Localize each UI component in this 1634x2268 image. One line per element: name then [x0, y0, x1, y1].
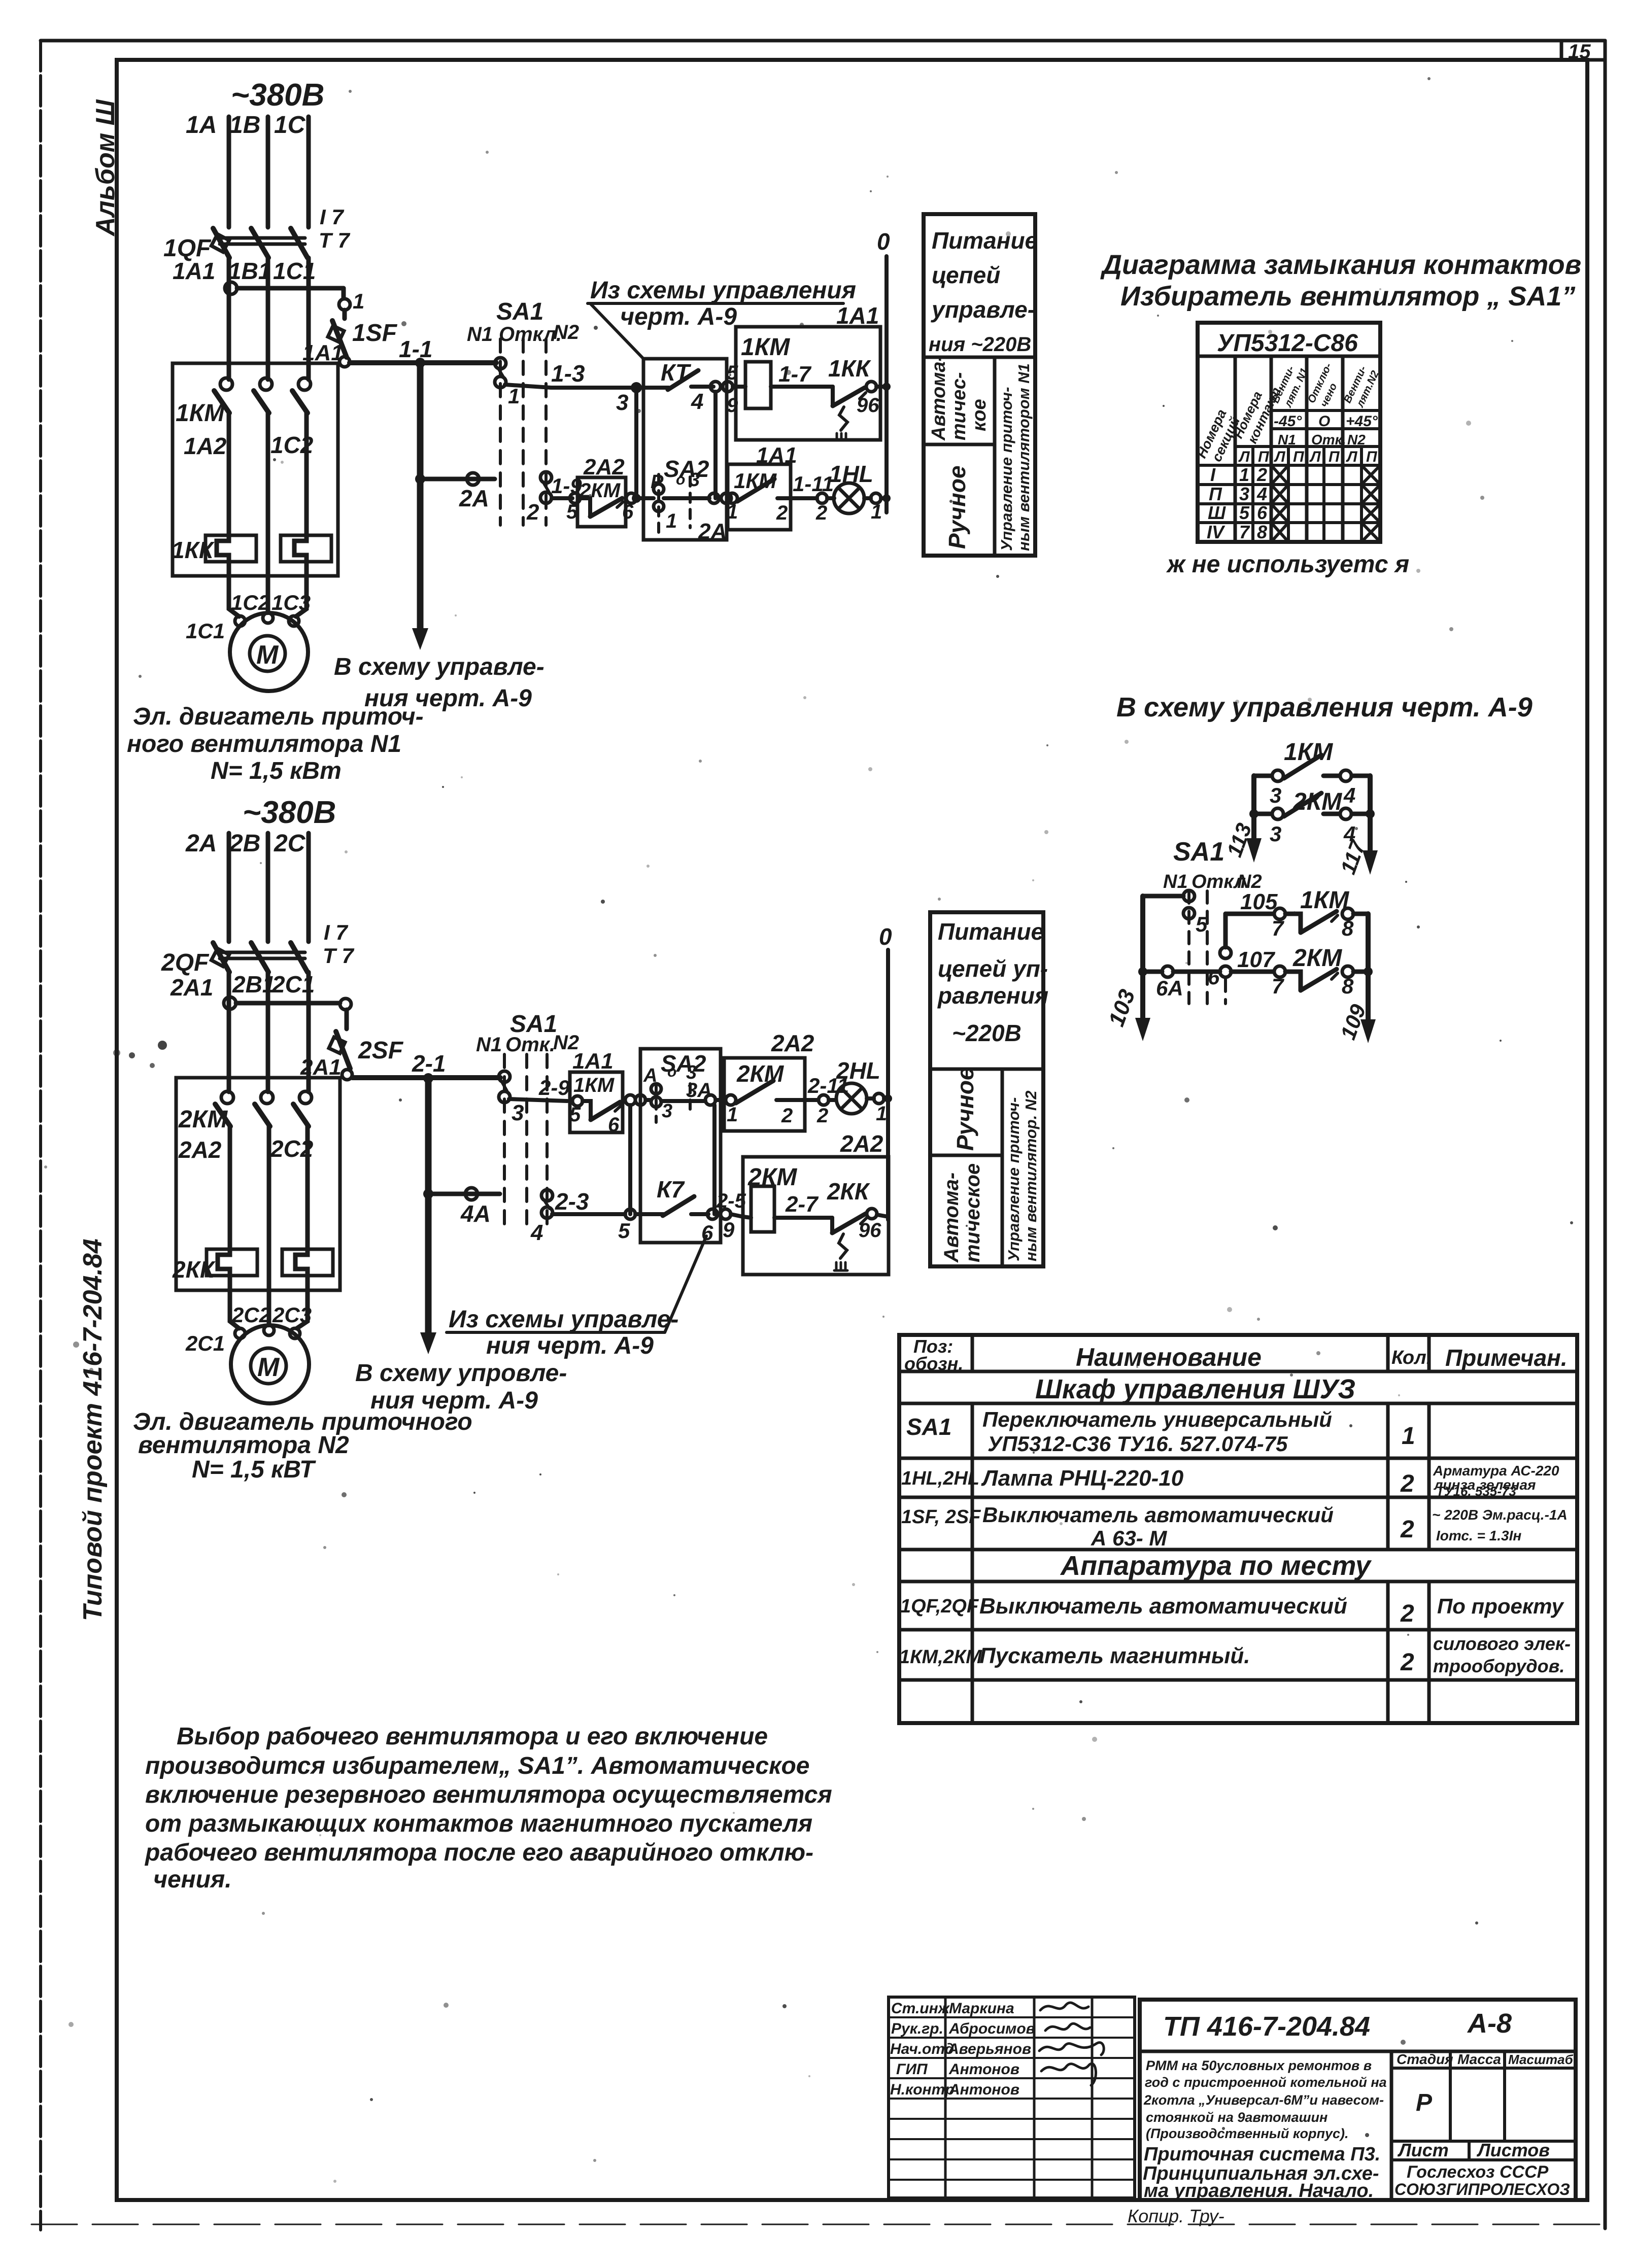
SA2 box outline: [640, 1049, 721, 1243]
svg-text:ж не используетс я: ж не используетс я: [1166, 551, 1409, 578]
terminals at 2A node: [709, 493, 731, 503]
svg-text:8: 8: [1257, 522, 1267, 542]
svg-text:Выключатель автоматический: Выключатель автоматический: [979, 1594, 1347, 1619]
svg-text:Ручное: Ручное: [944, 465, 970, 549]
svg-text:2SF: 2SF: [358, 1037, 404, 1064]
svg-text:1КМ: 1КМ: [1300, 887, 1349, 914]
contact 2KM: [1249, 793, 1375, 819]
wire 4A branch: [433, 1188, 500, 1200]
cell Автоматическое (rotated, circuit 2): [940, 1163, 984, 1263]
svg-text:1А: 1А: [186, 112, 217, 139]
svg-text:Листов: Листов: [1476, 2140, 1550, 2160]
svg-text:ГИП: ГИП: [896, 2061, 928, 2078]
svg-text:3: 3: [512, 1101, 524, 1125]
svg-text:П: П: [1366, 449, 1378, 465]
svg-text:Т 7: Т 7: [323, 944, 354, 968]
svg-text:3: 3: [1270, 822, 1281, 846]
node on phase A / branch to control (circuit 2): [224, 997, 351, 1010]
svg-text:103: 103: [1104, 986, 1140, 1030]
row I: [1210, 464, 1380, 485]
main title block frame: [1140, 2000, 1576, 2200]
svg-text:2КК: 2КК: [172, 1256, 216, 1283]
svg-text:2КМ: 2КМ: [178, 1106, 228, 1133]
motor leads: [229, 576, 307, 616]
svg-text:от размыкающих контактов ма: от размыкающих контактов магнитного пуск…: [145, 1810, 812, 1837]
svg-text:4: 4: [691, 389, 703, 414]
terminal: [819, 1095, 829, 1105]
cell Автоматическое (rotated): [928, 355, 990, 441]
thermal relay 1KK heater (phase A): [206, 535, 256, 576]
svg-text:N= 1,5 кВт: N= 1,5 кВт: [211, 758, 342, 784]
svg-text:4А: 4А: [460, 1200, 491, 1227]
svg-text:рабочего вентилятора после: рабочего вентилятора после его аварийног…: [144, 1839, 813, 1866]
wire 2-9: [509, 1099, 567, 1101]
box 2A2 (coil section): [743, 1157, 889, 1275]
svg-text:1: 1: [1402, 1423, 1415, 1450]
svg-text:1КМ,2КМ: 1КМ,2КМ: [899, 1646, 982, 1668]
rung 105 contact 1KM: [1225, 908, 1368, 933]
table SA1 outline: [1198, 323, 1380, 542]
wire 1-3: [505, 385, 634, 388]
svg-text:1: 1: [727, 1104, 738, 1126]
svg-text:Наименование: Наименование: [1076, 1343, 1262, 1371]
terminal: [817, 493, 827, 503]
svg-text:2QF: 2QF: [161, 949, 210, 976]
svg-text:SА2: SА2: [664, 456, 709, 482]
svg-text:трооборудов.: трооборудов.: [1433, 1656, 1564, 1676]
svg-text:2: 2: [781, 1105, 793, 1127]
svg-text:По проекту: По проекту: [1437, 1594, 1564, 1618]
svg-text:КТ: КТ: [661, 359, 692, 386]
svg-text:Шкаф управления ШУЗ: Шкаф управления ШУЗ: [1035, 1374, 1355, 1404]
relay contact KT (circuit 2): [635, 1196, 708, 1216]
svg-text:6: 6: [701, 1221, 713, 1245]
svg-text:1: 1: [1239, 464, 1249, 485]
svg-text:Эл. двигатель приточ-: Эл. двигатель приточ-: [133, 703, 424, 730]
down-feeder wire to sheet A-9 (circuit 1): [412, 363, 428, 650]
стадия/масса/масштаб header: [1391, 2051, 1576, 2141]
svg-text:Iотс. = 1.3Iн: Iотс. = 1.3Iн: [1436, 1528, 1521, 1543]
wire down from 3A: [712, 1105, 717, 1214]
NC contact 1KM: [572, 1096, 621, 1120]
svg-text:2КМ: 2КМ: [736, 1060, 785, 1087]
svg-text:Н.контр: Н.контр: [890, 2081, 955, 2098]
signature table grid: [889, 1997, 1135, 2198]
callout line from KT box: [590, 303, 643, 359]
wire 2C2: [305, 1126, 310, 1251]
NC contact 2KM: [580, 498, 623, 517]
svg-text:SА1: SА1: [1173, 837, 1224, 867]
drawing title: [1143, 2144, 1380, 2202]
box 1A1 (1KM NC contact): [570, 1072, 623, 1132]
svg-text:Выбор рабочего вентилятора: Выбор рабочего вентилятора и его включен…: [177, 1723, 768, 1750]
signature rows text: [890, 2000, 1035, 2098]
svg-text:5: 5: [618, 1219, 630, 1243]
svg-text:Р: Р: [651, 471, 664, 493]
svg-text:2: 2: [815, 502, 827, 524]
svg-text:Ручное: Ручное: [952, 1067, 978, 1151]
contactor 1KM box: [173, 363, 338, 576]
svg-text:N= 1,5 кВТ: N= 1,5 кВТ: [192, 1456, 316, 1483]
svg-text:П: П: [1329, 449, 1340, 465]
svg-text:2С2: 2С2: [270, 1136, 314, 1162]
svg-text:2А2: 2А2: [178, 1137, 222, 1163]
svg-text:К7: К7: [657, 1176, 685, 1202]
box 1A1 (coil section): [736, 327, 880, 440]
thermal contact 2KK: [832, 1209, 888, 1270]
SA1 contact 5: [1183, 890, 1195, 919]
node 2-1: [423, 1073, 433, 1083]
coil 1KM: [733, 362, 833, 408]
svg-text:1А2: 1А2: [184, 433, 227, 459]
thermal relay 1KK heater (phase C): [281, 535, 331, 576]
svg-text:П: П: [1293, 449, 1305, 465]
svg-text:~380В: ~380В: [231, 78, 324, 113]
rotated header Номера секций: [1194, 407, 1243, 464]
svg-text:УП5312-С36 ТУ16. 527.074-75: УП5312-С36 ТУ16. 527.074-75: [988, 1432, 1288, 1456]
svg-text:Маркина: Маркина: [949, 2000, 1014, 2017]
svg-text:Масса: Масса: [1457, 2051, 1501, 2067]
svg-text:о: о: [676, 471, 685, 488]
svg-text:8: 8: [1342, 974, 1354, 998]
wire 3A: [645, 1095, 724, 1105]
svg-text:8: 8: [1342, 916, 1354, 940]
wire phase 2C below QF: [307, 972, 311, 1092]
svg-text:Р: Р: [1416, 2089, 1433, 2116]
svg-text:Т 7: Т 7: [319, 228, 350, 252]
svg-text:силового элек-: силового элек-: [1433, 1633, 1571, 1654]
row 1KM,2KM: [899, 1633, 1571, 1676]
breaker 2QF: [211, 943, 308, 972]
svg-text:ма управления. Начало.: ма управления. Начало.: [1144, 2180, 1374, 2202]
svg-text:Пускатель магнитный.: Пускатель магнитный.: [979, 1643, 1250, 1668]
svg-text:1КК: 1КК: [828, 355, 871, 382]
contact 2KM terminal: [570, 493, 580, 503]
lamp 2HL: [829, 1083, 888, 1114]
scan noise specks: [1633, 2261, 1634, 2268]
svg-text:2: 2: [1400, 1470, 1414, 1497]
svg-text:4: 4: [1256, 484, 1267, 504]
svg-text:2С1: 2С1: [185, 1331, 225, 1355]
svg-text:1А1: 1А1: [173, 258, 215, 284]
svg-text:2А: 2А: [459, 485, 489, 511]
svg-text:тическое: тическое: [962, 1163, 984, 1262]
svg-text:П: П: [1209, 484, 1222, 504]
box 2A2 (2KM NO contact): [724, 1058, 805, 1131]
svg-text:Ст.инж: Ст.инж: [891, 2000, 950, 2017]
wire 2A2: [228, 1126, 232, 1251]
svg-text:производится избирателем„ SА1: производится избирателем„ SА1”. Автомати…: [145, 1752, 810, 1779]
wire phase 2C: [307, 833, 311, 942]
box 2A2 (2KM NC contact): [577, 477, 626, 527]
svg-text:1С2: 1С2: [270, 432, 314, 458]
svg-text:Питание: Питание: [932, 227, 1038, 254]
svg-text:N2: N2: [553, 321, 579, 343]
svg-text:+45°: +45°: [1346, 413, 1378, 430]
wire to SA2: [636, 496, 654, 500]
svg-text:2С3: 2С3: [272, 1303, 312, 1327]
document number row: [1140, 2050, 1576, 2053]
svg-text:1КМ: 1КМ: [176, 400, 225, 427]
wire phase 1C below QF: [307, 258, 311, 380]
svg-text:Альбом Ш: Альбом Ш: [91, 99, 120, 237]
svg-text:УП5312-С86: УП5312-С86: [1217, 330, 1358, 357]
wire phase 1A below QF: [227, 258, 231, 380]
NO contact 2KM: [726, 1081, 817, 1105]
svg-text:~ 220В Эм.расц.-1А: ~ 220В Эм.расц.-1А: [1432, 1507, 1568, 1523]
lamp 1HL: [827, 483, 887, 513]
selector SA2 (circuit 2): [651, 1084, 690, 1122]
svg-text:96: 96: [859, 1219, 881, 1242]
svg-text:6: 6: [608, 1114, 620, 1136]
svg-text:3: 3: [662, 1101, 672, 1122]
row IV: [1207, 522, 1380, 542]
svg-text:А-8: А-8: [1467, 2008, 1512, 2039]
svg-text:1: 1: [876, 1103, 887, 1125]
svg-text:М: М: [257, 1353, 280, 1382]
down-feeder wire to sheet A-9 (circuit 2): [420, 1079, 436, 1354]
contactor 1KM main contacts: [214, 378, 311, 413]
svg-text:3А: 3А: [686, 1079, 712, 1102]
feeder table text 220V (circuit 1): [929, 227, 1038, 356]
svg-text:6: 6: [1208, 965, 1220, 989]
control feed wire 2-1: [352, 1075, 500, 1080]
svg-text:(Производственный корпус).: (Производственный корпус).: [1146, 2126, 1349, 2141]
wire 1C2: [304, 413, 309, 537]
selector SA2 (circuit 1): [654, 474, 690, 539]
motor leads (motor 2): [230, 1290, 308, 1328]
лист/листов row: [1391, 2140, 1576, 2160]
svg-text:1: 1: [508, 384, 520, 408]
SA1 contact 6: [1220, 914, 1231, 977]
feeder table (circuit 2): [930, 912, 1043, 1266]
svg-text:9: 9: [723, 1218, 735, 1242]
svg-text:2-3: 2-3: [555, 1188, 589, 1215]
column lines: [1235, 356, 1361, 542]
row 1HL,2HL: [901, 1463, 1559, 1499]
svg-text:черт. А-9: черт. А-9: [620, 303, 737, 330]
svg-text:2: 2: [1400, 1649, 1414, 1676]
svg-text:2С: 2С: [274, 830, 306, 857]
svg-text:5: 5: [569, 1104, 581, 1126]
svg-text:Антонов: Антонов: [948, 2061, 1019, 2078]
row SA1: [906, 1407, 1415, 1456]
wire 6A: [1147, 966, 1220, 977]
terminal circle at 1SF output: [339, 357, 350, 367]
thermal relay 2KK heater (phase A): [207, 1249, 257, 1290]
svg-text:15: 15: [1568, 41, 1591, 63]
rotated header Вентилят.N1: [1270, 364, 1311, 409]
svg-text:Антонов: Антонов: [948, 2081, 1019, 2098]
node on phase A / branch to control: [225, 282, 350, 310]
node at KT box: [631, 382, 642, 393]
svg-text:N1: N1: [1278, 432, 1296, 448]
node 1-1: [415, 358, 425, 368]
svg-text:5: 5: [1196, 912, 1208, 936]
svg-text:~220В: ~220В: [952, 1020, 1022, 1046]
svg-text:N1: N1: [476, 1034, 502, 1056]
svg-text:ТП 416-7-204.84: ТП 416-7-204.84: [1163, 2011, 1370, 2042]
svg-text:1КМ: 1КМ: [573, 1074, 615, 1096]
svg-text:2КМ: 2КМ: [1292, 945, 1342, 972]
KT box outline: [643, 359, 727, 540]
wire phase 2B: [266, 833, 270, 942]
svg-text:2: 2: [526, 500, 539, 525]
rotated header Номера контакт.: [1230, 382, 1285, 445]
svg-text:2В: 2В: [229, 830, 260, 857]
svg-text:1-7: 1-7: [778, 362, 812, 387]
wire phase 2B below QF: [266, 972, 270, 1092]
bus 0 (circuit 1): [882, 256, 891, 512]
svg-text:SА1: SА1: [906, 1414, 951, 1440]
svg-text:1А1: 1А1: [756, 443, 797, 468]
feeder table text 220V (circuit 2): [937, 918, 1048, 1046]
project description: [1143, 2058, 1387, 2141]
svg-text:1HL,2HL: 1HL,2HL: [901, 1468, 979, 1489]
feeder table (circuit 1): [924, 214, 1035, 556]
svg-text:1HL: 1HL: [829, 461, 873, 487]
svg-text:2-7: 2-7: [785, 1192, 819, 1217]
svg-text:N2: N2: [1347, 432, 1366, 448]
contactor 2KM box: [176, 1078, 340, 1290]
svg-text:1SF, 2SF: 1SF, 2SF: [901, 1506, 981, 1528]
svg-text:2: 2: [1400, 1516, 1414, 1543]
svg-text:Масштаб: Масштаб: [1508, 2052, 1574, 2067]
svg-text:2А: 2А: [185, 830, 217, 857]
svg-text:2А2: 2А2: [771, 1030, 814, 1056]
angle row -45 0 +45: [1274, 413, 1378, 430]
svg-text:Приточная система П3.: Приточная система П3.: [1144, 2144, 1380, 2165]
svg-text:Из схемы управле-: Из схемы управле-: [449, 1306, 678, 1333]
wire 103 head: [1135, 896, 1183, 1041]
svg-text:SА1: SА1: [496, 298, 543, 325]
coil 2KM: [731, 1186, 832, 1232]
svg-text:117: 117: [1336, 837, 1370, 878]
svg-text:Питание: Питание: [938, 918, 1044, 945]
svg-text:Автома-: Автома-: [928, 355, 949, 441]
svg-text:А 63- М: А 63- М: [1091, 1526, 1167, 1550]
rotated header Вентилят.N2: [1342, 364, 1381, 409]
terminal: [625, 1209, 635, 1219]
svg-text:Лампа РНЦ-220-10: Лампа РНЦ-220-10: [981, 1466, 1184, 1491]
svg-text:1: 1: [871, 501, 882, 523]
wire phase 2A below QF: [227, 972, 231, 1092]
terminal 6: [707, 1209, 718, 1219]
wire phase 1A: [227, 117, 231, 227]
svg-text:1SF: 1SF: [352, 320, 398, 347]
svg-text:5: 5: [1239, 502, 1250, 523]
svg-text:В схему упровле-: В схему упровле-: [355, 1360, 567, 1387]
table header УП5312-С86: [1198, 355, 1380, 358]
svg-text:0: 0: [879, 923, 892, 950]
terminal 9: [721, 1209, 731, 1219]
svg-text:1С1: 1С1: [186, 619, 225, 643]
svg-text:I: I: [1210, 464, 1216, 485]
NO contact 1KM: [727, 479, 817, 503]
wire phase 1B below QF: [266, 258, 270, 380]
svg-text:1-3: 1-3: [551, 360, 585, 387]
wire 2-3: [552, 1212, 625, 1216]
signatures squiggles: [1039, 2003, 1104, 2085]
svg-text:1А1: 1А1: [836, 302, 879, 329]
row II: [1209, 484, 1380, 504]
svg-text:2КМ: 2КМ: [1292, 788, 1342, 815]
svg-text:1КМ: 1КМ: [741, 334, 790, 361]
svg-text:1: 1: [666, 510, 677, 532]
svg-text:Автома-: Автома-: [940, 1173, 963, 1263]
svg-text:7: 7: [1272, 916, 1284, 940]
svg-text:ния черт. А-9: ния черт. А-9: [486, 1332, 654, 1359]
rung 113/117 contact 1KM: [1254, 755, 1370, 781]
svg-text:М: М: [256, 640, 279, 670]
svg-text:СОЮЗГИПРОЛЕСХОЗ: СОЮЗГИПРОЛЕСХОЗ: [1394, 2180, 1570, 2198]
svg-text:1КК: 1КК: [172, 537, 215, 563]
svg-text:-45°: -45°: [1274, 413, 1302, 430]
svg-text:1А1: 1А1: [572, 1049, 614, 1074]
svg-text:Управление приточ-: Управление приточ-: [1005, 1097, 1023, 1261]
svg-text:В схему управления черт. А-: В схему управления черт. А-9: [1116, 692, 1533, 723]
svg-text:N1: N1: [1163, 871, 1188, 892]
row III: [1208, 502, 1380, 523]
header row lines: [1198, 410, 1380, 523]
svg-text:2А2: 2А2: [583, 455, 625, 479]
wire down between rungs: [628, 1105, 632, 1214]
svg-text:1: 1: [353, 289, 364, 313]
svg-text:Диаграмма замыкания контакто: Диаграмма замыкания контактов: [1100, 250, 1581, 280]
svg-text:чения.: чения.: [153, 1866, 232, 1893]
svg-text:Переключатель универсальный: Переключатель универсальный: [982, 1407, 1332, 1431]
svg-text:2А: 2А: [698, 519, 727, 544]
svg-text:2: 2: [776, 502, 788, 524]
svg-text:Нач.отд: Нач.отд: [890, 2041, 954, 2057]
breaker 1QF: [211, 228, 308, 258]
wire phase 2A: [227, 833, 231, 942]
contactor 2KM main contacts: [215, 1091, 312, 1126]
svg-text:3: 3: [1239, 484, 1249, 504]
svg-text:кое: кое: [969, 399, 990, 431]
position row N1 Отк N2: [1278, 432, 1366, 448]
svg-text:Примечан.: Примечан.: [1445, 1345, 1568, 1371]
wire 2B2: [267, 1126, 271, 1290]
relay contact KT: [641, 370, 713, 390]
wire 113 with arrow: [1246, 776, 1262, 863]
svg-text:о: о: [667, 1063, 676, 1080]
svg-text:2котла „Универсал-6М”и навесом: 2котла „Универсал-6М”и навесом-: [1143, 2092, 1384, 2108]
wire down from node 3: [634, 388, 638, 498]
svg-text:2HL: 2HL: [836, 1057, 880, 1084]
Л/П row: [1238, 449, 1378, 465]
svg-text:В схему управле-: В схему управле-: [334, 654, 544, 680]
svg-text:Аппаратура по месту: Аппаратура по месту: [1060, 1551, 1372, 1581]
SA1 contact 4: [541, 1190, 553, 1218]
svg-text:П: П: [1258, 449, 1270, 465]
svg-text:Л: Л: [1309, 449, 1321, 465]
svg-text:2: 2: [816, 1105, 828, 1127]
svg-text:Отк.: Отк.: [505, 1034, 555, 1056]
SA1 contact 2: [540, 472, 552, 503]
rung 107 contact 2KM: [1231, 966, 1368, 990]
svg-text:равления: равления: [937, 982, 1048, 1009]
svg-text:7: 7: [1239, 522, 1250, 542]
svg-text:1С3: 1С3: [271, 591, 311, 614]
cell Управление приточным вентилятором N1 (rotated): [998, 363, 1033, 551]
svg-text:2: 2: [1256, 464, 1267, 485]
wire 2A branch: [425, 473, 495, 485]
svg-text:цепей: цепей: [932, 262, 1000, 288]
svg-text:Л: Л: [1274, 449, 1286, 465]
svg-text:Избиратель вентилятор „ SА1”: Избиратель вентилятор „ SА1”: [1120, 281, 1575, 312]
svg-text:Аверьянов: Аверьянов: [947, 2041, 1031, 2057]
